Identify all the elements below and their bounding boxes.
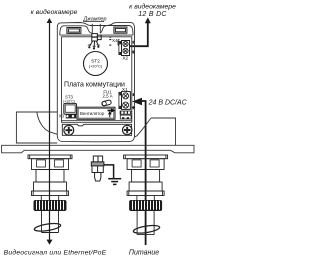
fan connector below X1 [120, 111, 132, 115]
svg-text:(+10°C): (+10°C) [63, 99, 75, 103]
svg-text:2,5 A: 2,5 A [102, 94, 112, 99]
right gland knurled nut [129, 200, 162, 211]
wire video cable arrow down [47, 240, 53, 245]
case outer outline [57, 23, 134, 142]
wire 12V arrow up [145, 17, 151, 23]
X1 polarity marks [133, 93, 134, 96]
wire 24V arrow pointing left at X1 [132, 98, 142, 105]
jumper assembly [88, 34, 101, 48]
svg-text:Питание: Питание [129, 250, 159, 256]
svg-text:Плата коммутации: Плата коммутации [64, 82, 125, 89]
base plate [2, 145, 194, 153]
svg-text:X3: X3 [59, 114, 65, 119]
wire 12V DC from X2 [130, 22, 148, 46]
thermostat ST2 [84, 52, 108, 76]
right cable loop [133, 224, 160, 234]
left top plate [67, 28, 81, 34]
center post [91, 24, 93, 34]
right gland spout [137, 211, 154, 235]
X2 polarity marks [133, 41, 134, 44]
wire video cable arrow up [47, 18, 53, 23]
vent fitting bottom center [91, 156, 104, 181]
tiny side marks left of X4 [109, 37, 111, 46]
wire 24V power from X1 to right gland [141, 101, 146, 245]
fuse FU1 symbol [101, 100, 111, 107]
ground [104, 165, 121, 185]
svg-text:12 В DC: 12 В DC [138, 11, 167, 18]
svg-text:X2: X2 [122, 56, 128, 61]
case bottom edge [57, 137, 134, 142]
left cable loop [34, 222, 61, 232]
svg-text:(+20°C): (+20°C) [89, 64, 103, 69]
bottom bracket with screws [62, 124, 131, 135]
svg-text:к видеокамере: к видеокамере [129, 3, 176, 11]
screw left [64, 125, 74, 135]
left mound [60, 26, 92, 35]
right cable gland [124, 155, 168, 200]
arrow fan to connector [108, 110, 112, 112]
left cable gland [28, 155, 72, 200]
svg-text:X4: X4 [112, 38, 118, 43]
screw right [123, 125, 132, 134]
svg-text:к видеокамере: к видеокамере [31, 8, 78, 16]
connector X1 [119, 92, 130, 110]
connector X2 [119, 41, 130, 56]
svg-text:Видеосигнал или Ethernet/PoE: Видеосигнал или Ethernet/PoE [4, 249, 107, 256]
left gland knurled nut [34, 200, 67, 211]
board outline [62, 37, 132, 123]
right latch box [135, 118, 176, 145]
case top mounds [60, 24, 133, 35]
left gland spout [42, 211, 59, 233]
left latch box [16, 112, 57, 143]
right top plate [114, 27, 127, 33]
right mound [100, 26, 133, 36]
fan air arrow up [109, 113, 111, 117]
fan Вентилятор [77, 107, 115, 119]
wire video cable vertical [47, 18, 53, 245]
svg-text:Вентилятор: Вентилятор [80, 111, 105, 116]
svg-text:24 В DC/AC: 24 В DC/AC [148, 100, 188, 107]
